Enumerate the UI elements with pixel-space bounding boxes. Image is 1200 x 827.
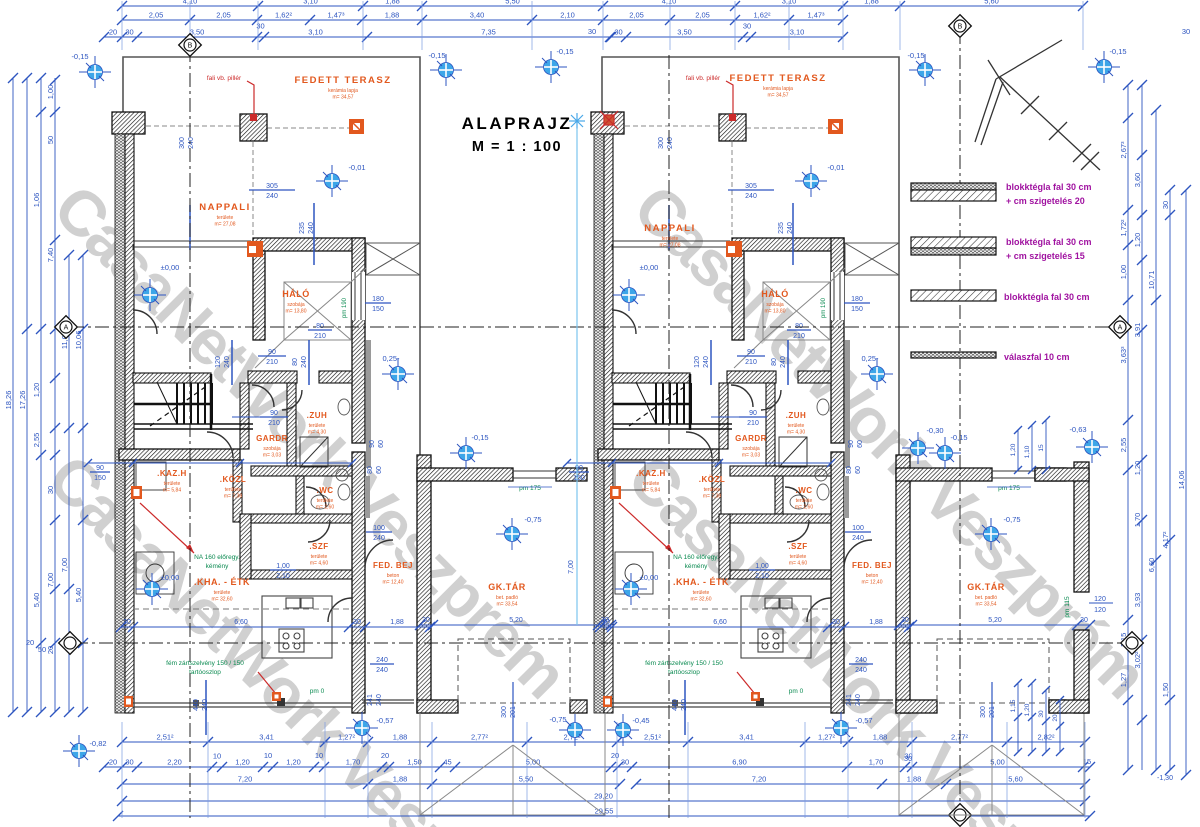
svg-text:3,02²: 3,02² [1133, 651, 1142, 669]
svg-text:29,20: 29,20 [594, 792, 613, 801]
dim cluster right of garage [1014, 679, 1064, 756]
svg-text:5,40: 5,40 [32, 593, 41, 608]
svg-text:5,50: 5,50 [519, 775, 534, 784]
svg-text:3,41: 3,41 [259, 733, 274, 742]
svg-text:30: 30 [621, 758, 629, 767]
svg-text:10: 10 [264, 751, 272, 760]
svg-text:-0,45: -0,45 [632, 716, 649, 725]
svg-text:B: B [188, 43, 193, 50]
svg-text:válaszfal 10 cm: válaszfal 10 cm [1004, 352, 1070, 362]
svg-text:területe: területe [662, 236, 679, 242]
level marker -0,82 [63, 735, 95, 767]
svg-text:1,27²: 1,27² [818, 733, 836, 742]
axis vertical right unit [668, 55, 670, 818]
svg-text:+ cm szigetelés 20: + cm szigetelés 20 [1006, 196, 1085, 206]
svg-text:+ cm szigetelés 15: + cm szigetelés 15 [1006, 251, 1085, 261]
svg-text:1,20: 1,20 [1133, 461, 1142, 476]
svg-text:20: 20 [611, 751, 619, 760]
svg-text:1,88: 1,88 [385, 11, 400, 20]
svg-text:2,55: 2,55 [32, 433, 41, 448]
svg-text:3,41: 3,41 [739, 733, 754, 742]
top extension lines [122, 1, 1083, 50]
dimension chain bottom row 3 left [117, 779, 625, 789]
room label FEDETT TERASZ right [729, 73, 826, 99]
svg-text:3,40: 3,40 [470, 11, 485, 20]
svg-text:7,00: 7,00 [60, 558, 69, 573]
svg-text:7,00: 7,00 [46, 573, 55, 588]
svg-text:2,20: 2,20 [167, 758, 182, 767]
svg-text:-1,30: -1,30 [1157, 775, 1173, 782]
svg-text:3,10: 3,10 [790, 28, 805, 37]
svg-text:1,70: 1,70 [1133, 513, 1142, 528]
svg-text:A: A [1118, 325, 1123, 332]
svg-text:2,77²: 2,77² [471, 733, 489, 742]
svg-text:B: B [958, 24, 963, 31]
svg-text:NAPPALI: NAPPALI [644, 223, 696, 234]
svg-text:2,51²: 2,51² [156, 733, 174, 742]
svg-text:1,00: 1,00 [1119, 265, 1128, 280]
svg-text:kerámia lapja: kerámia lapja [763, 86, 793, 92]
svg-text:7,20: 7,20 [752, 775, 767, 784]
svg-text:2,67³: 2,67³ [1119, 141, 1128, 159]
svg-text:30: 30 [1038, 710, 1045, 718]
svg-text:5,60: 5,60 [1008, 775, 1023, 784]
svg-text:m= 34,57: m= 34,57 [333, 95, 354, 101]
svg-text:7,00: 7,00 [568, 560, 575, 574]
svg-text:6,90: 6,90 [732, 758, 747, 767]
legend sample blokktegla 30 + 15 [911, 237, 996, 255]
svg-text:30: 30 [1161, 201, 1170, 209]
svg-text:-0,15: -0,15 [556, 47, 573, 56]
svg-text:2,51²: 2,51² [644, 733, 662, 742]
svg-text:1,70: 1,70 [346, 758, 361, 767]
dimension chain left col b [50, 75, 60, 717]
svg-text:4,10: 4,10 [662, 0, 677, 6]
svg-text:2,05: 2,05 [629, 11, 644, 20]
svg-text:blokktégla fal 30 cm: blokktégla fal 30 cm [1004, 292, 1090, 302]
level marker -0,15 left [79, 56, 111, 88]
svg-text:30: 30 [1182, 27, 1190, 36]
svg-text:1,15: 1,15 [1010, 699, 1017, 712]
svg-text:1,20: 1,20 [1024, 703, 1031, 716]
svg-text:30: 30 [904, 754, 912, 763]
svg-text:30: 30 [588, 27, 596, 36]
dimension chain right col c [1151, 105, 1161, 775]
svg-text:15: 15 [1038, 444, 1045, 452]
svg-text:M = 1 : 100: M = 1 : 100 [472, 139, 562, 155]
svg-text:-0,30: -0,30 [926, 426, 943, 435]
svg-text:1,27²: 1,27² [338, 733, 356, 742]
room label NAPPALI right [644, 223, 696, 249]
svg-text:1,20: 1,20 [1010, 443, 1017, 456]
svg-text:3,60: 3,60 [1133, 173, 1142, 188]
dimension chain bottom row 5 [113, 811, 1095, 821]
svg-text:-0,75: -0,75 [549, 715, 566, 724]
svg-text:30: 30 [614, 28, 622, 37]
legend sample blokktegla 30 + 20 [911, 183, 996, 201]
svg-text:14,06: 14,06 [1177, 471, 1186, 490]
axis B vertical left [189, 48, 191, 818]
svg-text:6,60: 6,60 [1147, 558, 1156, 573]
svg-text:120: 120 [1094, 607, 1106, 614]
svg-text:FEDETT TERASZ: FEDETT TERASZ [294, 75, 391, 86]
svg-text:1,00: 1,00 [46, 85, 55, 100]
svg-text:30: 30 [125, 758, 133, 767]
svg-text:3,10: 3,10 [303, 0, 318, 6]
svg-text:2,55: 2,55 [1119, 438, 1128, 453]
svg-text:7,40: 7,40 [46, 248, 55, 263]
dim 120/120 [1094, 596, 1106, 614]
svg-text:1,20: 1,20 [235, 758, 250, 767]
svg-text:30: 30 [46, 486, 55, 494]
svg-text:1,88: 1,88 [393, 775, 408, 784]
svg-text:A: A [64, 325, 69, 332]
title leader star [569, 113, 585, 129]
svg-text:1,10: 1,10 [1024, 445, 1031, 458]
garage roof outline right [899, 713, 1084, 815]
svg-text:20: 20 [109, 28, 117, 37]
svg-text:10,71: 10,71 [1147, 271, 1156, 290]
dimension chain top row 3 right [606, 32, 848, 42]
dimension chain left col a [36, 73, 46, 717]
svg-text:20: 20 [109, 758, 117, 767]
svg-text:NAPPALI: NAPPALI [199, 202, 251, 213]
svg-text:50: 50 [46, 136, 55, 144]
svg-text:5,50: 5,50 [505, 0, 520, 6]
dimension chain right col e [1181, 185, 1191, 780]
svg-text:3,91: 3,91 [1133, 323, 1142, 338]
legend sample blokktegla 30 [911, 290, 996, 301]
svg-text:1,20: 1,20 [32, 383, 41, 398]
svg-text:5,00: 5,00 [526, 758, 541, 767]
svg-text:3,50: 3,50 [677, 28, 692, 37]
level marker -0,63 [1076, 431, 1108, 463]
left unit annotations [84, 51, 616, 744]
svg-text:-0,82: -0,82 [89, 739, 106, 748]
svg-text:2,05: 2,05 [216, 11, 231, 20]
svg-text:blokktégla fal 30 cm: blokktégla fal 30 cm [1006, 182, 1092, 192]
svg-text:3,10: 3,10 [308, 28, 323, 37]
svg-text:1,88: 1,88 [873, 733, 888, 742]
svg-text:1,62²: 1,62² [275, 11, 293, 20]
dimension chain left col 18,26 [8, 73, 18, 717]
svg-text:pm 115: pm 115 [1064, 596, 1071, 618]
right unit annotations [563, 51, 1095, 744]
level marker -0,15 right [1088, 51, 1120, 83]
dim cluster above right garage [1014, 416, 1050, 474]
dimension chain bottom row 1 [117, 737, 1090, 747]
dimension chain top row 2 [117, 15, 848, 25]
svg-text:m= 27,08: m= 27,08 [660, 243, 681, 249]
svg-text:2,05: 2,05 [695, 11, 710, 20]
level marker -0,15 mid [535, 51, 567, 83]
level marker -0,45 [607, 714, 639, 746]
svg-text:120: 120 [1094, 596, 1106, 603]
dimension chain right col b [1137, 80, 1147, 770]
svg-text:1,70: 1,70 [869, 758, 884, 767]
svg-text:20: 20 [381, 751, 389, 760]
svg-text:18,26: 18,26 [4, 391, 13, 410]
svg-text:7,35: 7,35 [481, 28, 496, 37]
svg-text:1,47³: 1,47³ [327, 11, 345, 20]
svg-text:FEDETT TERASZ: FEDETT TERASZ [729, 73, 826, 84]
svg-text:1,88: 1,88 [907, 775, 922, 784]
axis horizontal lower [74, 642, 1128, 644]
level marker -0,75 [559, 714, 591, 746]
axis horizontal upper [70, 326, 1116, 328]
svg-text:45: 45 [443, 758, 451, 767]
dimension chain right col a [1123, 80, 1133, 775]
dimension chain left col d [78, 250, 88, 717]
svg-text:7,20: 7,20 [238, 775, 253, 784]
svg-text:2,05: 2,05 [149, 11, 164, 20]
wall right garage east [1074, 462, 1089, 592]
svg-text:10: 10 [213, 752, 221, 761]
level marker -0,30 [902, 432, 934, 464]
svg-text:-0,15: -0,15 [71, 52, 88, 61]
svg-text:1,88: 1,88 [393, 733, 408, 742]
legend sample valaszfal 10 [911, 352, 996, 358]
left house unit [112, 57, 587, 713]
svg-text:30: 30 [125, 28, 133, 37]
svg-text:2,10: 2,10 [560, 11, 575, 20]
svg-text:5,60: 5,60 [984, 0, 999, 6]
dimension chain right col d [1165, 185, 1175, 775]
dimension chain left col 17,26 [22, 73, 32, 717]
svg-text:3,63³: 3,63³ [1119, 346, 1128, 364]
dimension chain top row 1 [117, 1, 1088, 11]
svg-text:4,17²: 4,17² [1161, 531, 1170, 549]
svg-text:17,26: 17,26 [18, 391, 27, 410]
survey sketch top right [975, 40, 1100, 170]
dimension chain bottom row 3 right [631, 779, 1090, 789]
svg-text:3,93: 3,93 [1133, 593, 1142, 608]
svg-text:m= 34,57: m= 34,57 [768, 93, 789, 99]
svg-text:1,06: 1,06 [32, 193, 41, 208]
svg-text:30: 30 [743, 22, 751, 31]
section line light blue left [576, 128, 578, 625]
svg-text:kerámia lapja: kerámia lapja [328, 88, 358, 94]
svg-text:20: 20 [1052, 714, 1059, 722]
svg-text:20: 20 [46, 646, 55, 654]
dimension chain top row 3 left [99, 32, 615, 42]
svg-text:blokktégla fal 30 cm: blokktégla fal 30 cm [1006, 237, 1092, 247]
dimension chain left col c [64, 250, 74, 717]
svg-text:1,20: 1,20 [286, 758, 301, 767]
svg-text:1,50: 1,50 [1161, 683, 1170, 698]
room label FEDETT TERASZ left [294, 75, 391, 101]
svg-text:-0,63: -0,63 [1069, 425, 1086, 434]
svg-text:1,62²: 1,62² [753, 11, 771, 20]
bottom extension lines [122, 722, 1085, 818]
garage roof outline left [420, 713, 605, 815]
svg-text:-0,15: -0,15 [1109, 47, 1126, 56]
svg-text:1,47³: 1,47³ [807, 11, 825, 20]
svg-text:20: 20 [26, 638, 34, 647]
svg-text:1,88: 1,88 [385, 0, 400, 6]
svg-text:50: 50 [38, 645, 46, 654]
dimension chain bottom row 4 [117, 796, 1090, 806]
axis vertical legend [959, 30, 961, 812]
svg-text:5,40: 5,40 [74, 588, 83, 603]
svg-text:1,27: 1,27 [1119, 673, 1128, 688]
room label NAPPALI left [199, 202, 251, 228]
svg-text:10,06: 10,06 [74, 331, 83, 350]
svg-text:ALAPRAJZ: ALAPRAJZ [462, 114, 573, 133]
svg-text:1,20: 1,20 [1133, 233, 1142, 248]
svg-text:30: 30 [256, 22, 264, 31]
svg-text:m= 27,08: m= 27,08 [215, 222, 236, 228]
right house unit [591, 57, 1066, 713]
svg-text:területe: területe [217, 215, 234, 221]
dimension chain bottom row 2 [99, 762, 1095, 772]
svg-text:10: 10 [315, 751, 323, 760]
corner pillar red marker right unit [600, 111, 618, 129]
svg-text:1,72²: 1,72² [1119, 219, 1128, 237]
svg-text:1,88: 1,88 [864, 0, 879, 6]
